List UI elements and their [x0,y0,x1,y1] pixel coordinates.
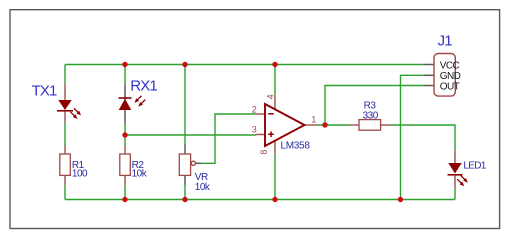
svg-text:10k: 10k [132,169,148,180]
junction dot VCC/VR [182,62,187,67]
LED LED1 [448,150,470,189]
wire R2 bottom [124,185,126,200]
wire R3 to LED1 [391,125,456,150]
wire TX1 to R1 [64,123,66,146]
wire RX1 branch top [124,65,126,86]
svg-text:3: 3 [252,125,257,135]
svg-text:OUT: OUT [440,82,460,93]
junction dot rail/GND [398,197,403,202]
junction dot rail/pin8 [272,197,277,202]
wire bottom ground rail [65,199,455,201]
resistor R3 [350,120,391,131]
svg-text:LM358: LM358 [281,140,311,151]
svg-text:8: 8 [259,150,269,155]
wire VR wiper to pin2 [201,114,257,163]
wire R2 top [124,135,126,146]
junction dot rail/VR [182,197,187,202]
wire GND from J1 [401,75,425,199]
svg-text:RX1: RX1 [130,77,157,94]
svg-text:10k: 10k [195,182,211,193]
resistor R1 [60,146,71,185]
connector J1 [424,54,455,97]
junction dot output node [322,122,327,127]
svg-text:4: 4 [265,94,275,99]
photodiode RX1 [119,85,147,124]
wire TX1 branch top [64,65,66,85]
wire VR bottom [184,185,186,200]
wire VCC top rail [65,64,424,66]
op-amp U1 LM358 [256,96,317,155]
svg-text:TX1: TX1 [32,83,57,100]
svg-text:J1: J1 [438,32,453,49]
potentiometer VR [179,145,201,186]
wire node RX to pin3 [125,134,256,136]
junction dot node RX1 [122,132,127,137]
junction dot VCC/RX1 [122,62,127,67]
wire LED1 bottom [454,189,456,200]
wire R1 bottom [64,185,66,200]
wire OUT feedback up [325,86,424,126]
junction dot VCC/pin4 [272,62,277,67]
wire output node [317,124,350,126]
wire op-amp pin4 drop [274,65,276,96]
svg-text:1: 1 [311,115,316,125]
junction dot rail/R2 [122,197,127,202]
svg-text:VCC: VCC [440,61,460,72]
svg-text:LED1: LED1 [463,160,486,171]
wire VR branch top [184,65,186,145]
resistor R2 [120,146,131,185]
LED TX1 [57,84,82,123]
svg-text:GND: GND [440,71,461,82]
svg-text:330: 330 [363,110,379,121]
svg-text:100: 100 [72,169,88,180]
wire op-amp pin8 to rail [274,155,276,200]
wire RX1 bottom [124,124,126,136]
svg-text:2: 2 [252,104,257,114]
